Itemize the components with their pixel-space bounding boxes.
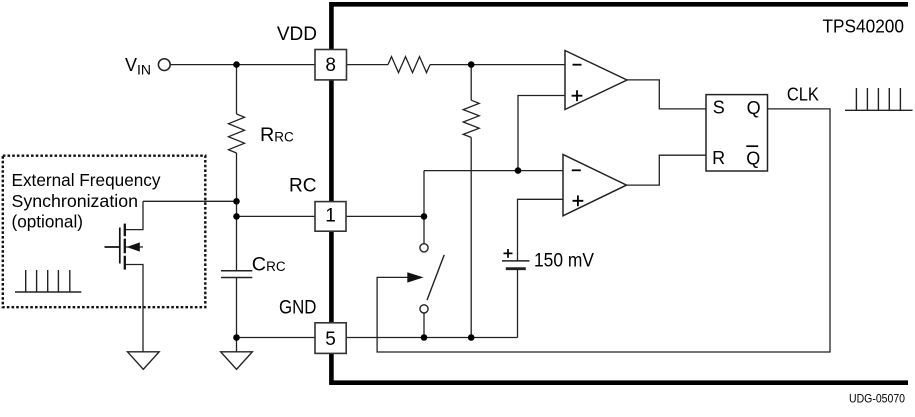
comparator U1 plus sign [572,90,583,101]
node dot sync wire junction [233,198,240,205]
wire pin 1 RC [237,215,425,217]
transistor Q1 source lead [126,265,143,352]
node dot VIN junction [233,61,240,68]
switch S1 top contact [420,244,428,252]
svg-text:GND: GND [279,298,317,319]
transistor Q1 sync MOSFET drain lead [126,201,143,229]
wire GND pin 5 rail [237,337,518,339]
node dot RC pin junction [233,213,240,220]
comparator U2 triangle [563,155,627,216]
capacitor CRC plates [221,271,252,278]
ground symbol under sync MOSFET [128,352,160,370]
svg-text:Q: Q [746,149,760,169]
comparator U2 minus sign [572,169,581,171]
wire VIN terminal to pin 8 and on to comparator U1 minus (gap for resistor) [170,64,565,66]
IC boundary box (TPS40200 outline) [331,2,908,385]
node dot GND rail at CRC [233,334,240,341]
switch actuation arrowhead from CLK loop [407,272,423,282]
resistor RRC vertical [229,114,245,153]
wire comparator U1 plus input branch [518,96,565,171]
resistor R3 horizontal from pin 8 [388,57,430,73]
ground symbol under CRC [221,352,253,370]
resistor R4 vertical divider [463,100,479,137]
svg-text:Synchronization: Synchronization [12,191,139,211]
node dot comparator U2 minus junction [515,167,522,174]
svg-text:1: 1 [325,206,336,227]
wire comparator U2 plus input from battery [518,199,564,261]
svg-text:UDG-05070: UDG-05070 [849,392,905,406]
node dot RC to switch junction [421,213,428,220]
svg-text:VDD: VDD [277,24,317,45]
wire divider rail x=471 (gap for resistor R4) [470,65,472,338]
pin box 1 RC [315,202,346,232]
SR latch U3 box [706,95,768,171]
svg-text:External Frequency: External Frequency [12,170,161,190]
pin box 5 GND [315,323,346,354]
svg-text:5: 5 [325,329,336,350]
transistor Q1 gate bar and lead [105,228,120,264]
wire vertical rail x=236.5 (VIN node down through RRC to CRC and ground) [236,65,238,352]
clock waveform in sync box [15,270,81,292]
transistor Q1 body lead with arrow [126,246,143,248]
wire comparator U2 output to latch R [627,155,707,185]
switch S1 blade [427,255,444,300]
wire switch bottom contact to GND rail [423,313,425,337]
VIN terminal circle [158,59,170,71]
wire battery negative to GND rail [517,269,519,338]
battery 150 mV positive plate [502,260,530,262]
svg-text:VIN: VIN [125,55,151,77]
svg-text:S: S [713,98,725,118]
svg-text:RC: RC [289,176,316,197]
svg-text:RRC: RRC [260,124,294,146]
wire latch Q output CLK feedback loop to switch arrow [377,109,830,352]
comparator U2 plus sign [573,195,584,206]
transistor Q1 channel bars [124,224,126,270]
svg-text:150 mV: 150 mV [534,250,594,271]
node dot divider top junction [468,61,475,68]
wire comparator U2 minus input [424,170,563,172]
svg-text:CRC: CRC [252,254,286,276]
node dot GND rail at switch [421,334,428,341]
svg-text:Q: Q [747,98,761,118]
svg-text:TPS40200: TPS40200 [823,16,905,37]
comparator U1 minus sign [573,64,582,66]
comparator U1 triangle [565,51,627,110]
wire sync box output to rail [143,200,237,202]
wire vertical x=424 from comparator U2 minus down to switch top contact [423,171,425,244]
node dot GND rail at divider [468,334,475,341]
svg-text:R: R [712,148,725,168]
external frequency synchronization dashed box [3,156,206,308]
switch S1 bottom contact [420,305,428,313]
battery 150 mV negative plate [506,267,526,270]
svg-text:CLK: CLK [787,84,819,104]
wire comparator U1 output to latch S [627,80,706,109]
svg-text:8: 8 [325,55,336,76]
battery plus sign [504,249,513,258]
clock waveform at CLK output [845,88,913,110]
svg-text:(optional): (optional) [12,211,84,231]
pin box 8 VDD [315,50,347,80]
